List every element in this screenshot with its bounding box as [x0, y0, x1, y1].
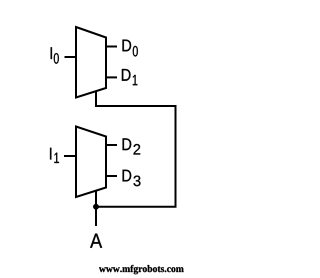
wire select loop from U1 output side to node A [96, 91, 176, 207]
watermark www.mfgrobots.com [99, 265, 184, 274]
label D1 [122, 69, 137, 85]
wire input stub I1 [64, 155, 76, 157]
wire output stub D1 [106, 76, 117, 78]
label I1 [50, 148, 59, 163]
label D3 [123, 170, 141, 187]
label D2 [123, 138, 141, 154]
wire input stub I0 [65, 56, 77, 58]
demux U2 (bottom 1-to-2 demultiplexer body) [76, 127, 106, 198]
wire select drop from U2 bottom edge through node A [95, 190, 97, 226]
label D0 [123, 40, 138, 57]
wire output stub D2 [106, 144, 117, 146]
label I0 [51, 47, 59, 63]
wire output stub D3 [106, 175, 117, 177]
wire output stub D0 [106, 46, 117, 48]
label A (select line) [90, 234, 102, 248]
node A junction dot [93, 204, 99, 210]
demux U1 (top 1-to-2 demultiplexer body) [76, 27, 106, 98]
